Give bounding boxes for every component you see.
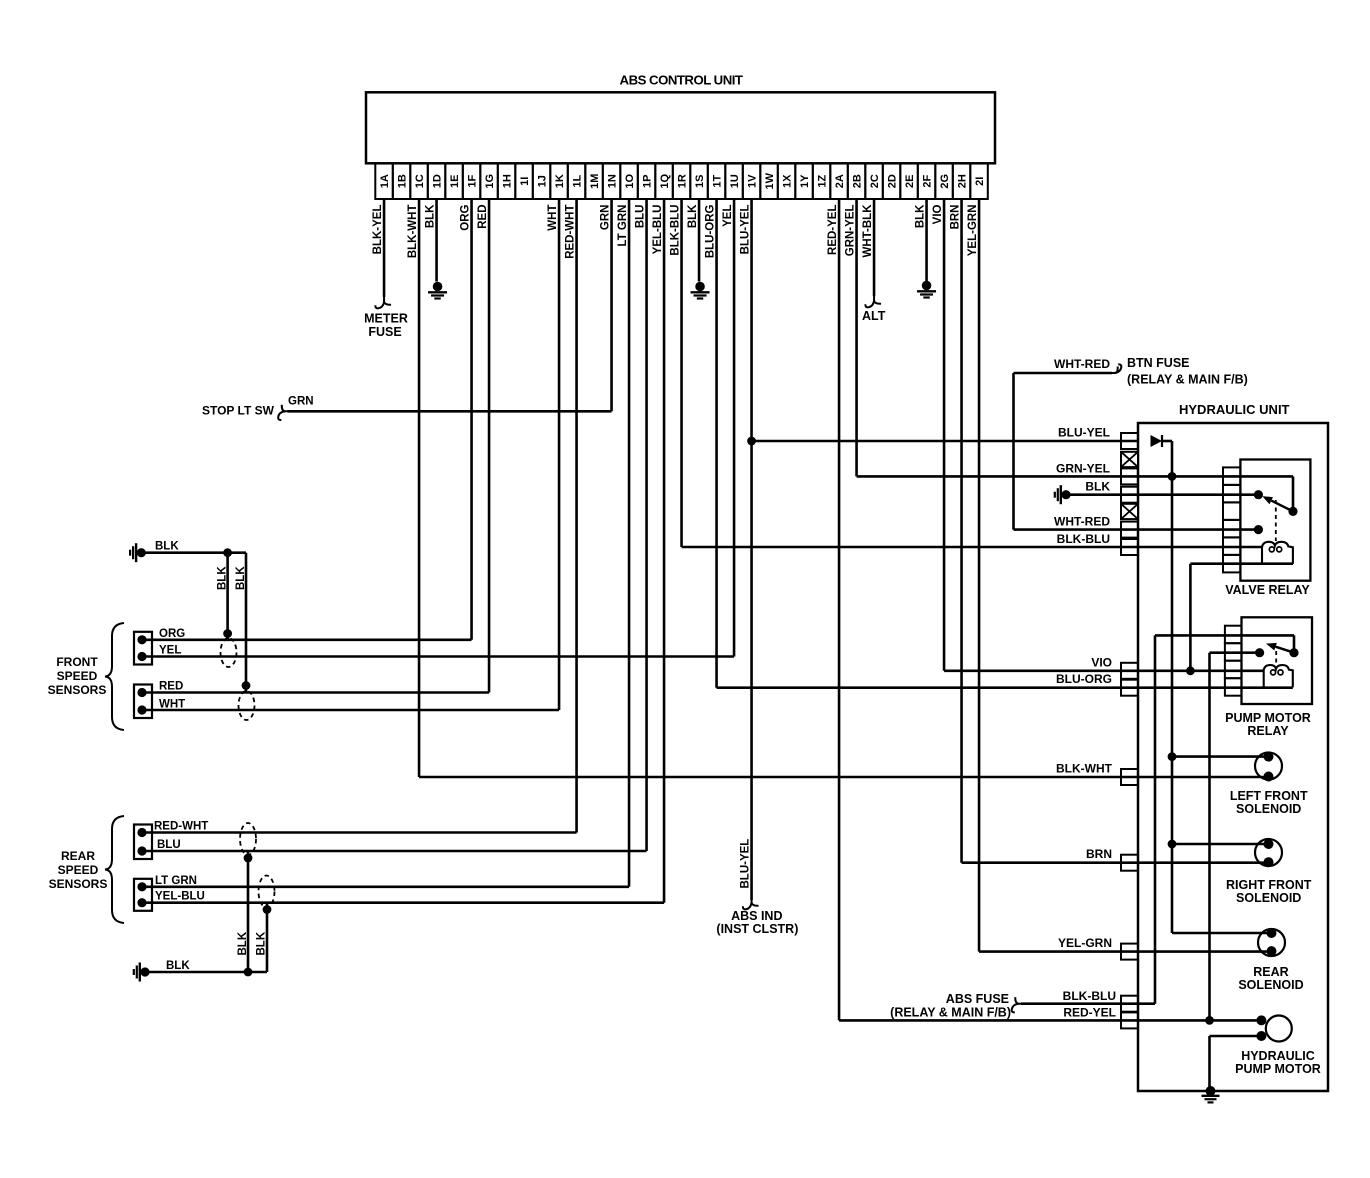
wire pump relay supply: [1155, 634, 1294, 637]
rear sensor connector 1 (RED-WHT/BLU): [134, 825, 152, 860]
svg-text:BLK: BLK: [687, 204, 699, 228]
svg-text:1W: 1W: [764, 172, 776, 189]
wire BRN from pin 2H: [950, 199, 962, 863]
svg-text:LT GRN: LT GRN: [155, 875, 197, 887]
hydraulic unit box: [1138, 423, 1328, 1091]
svg-text:WHT-BLK: WHT-BLK: [862, 204, 874, 258]
svg-text:SOLENOID: SOLENOID: [1236, 802, 1301, 816]
hydraulic pump motor: [1266, 1016, 1292, 1042]
wire BLK from pin 1D: [425, 199, 437, 282]
wire BLK drop from BLU connector: [247, 851, 250, 972]
wire VIO pin 2G to pump relay coil: [944, 669, 1264, 672]
svg-text:1A: 1A: [379, 174, 391, 188]
svg-text:LT GRN: LT GRN: [617, 205, 629, 247]
abs ind hook: [752, 897, 759, 906]
junction front BLK tee: [223, 548, 232, 557]
junction BLK below YEL-BLU wire: [263, 905, 272, 914]
wire RED-YEL pin 2A to pump motor: [839, 1019, 1261, 1022]
wire pump motor return: [1210, 1035, 1262, 1038]
wire GRN-YEL from pin 2B: [845, 199, 857, 476]
wire ORG from pin 1F: [460, 199, 472, 640]
svg-text:RED: RED: [477, 205, 489, 229]
wire RED from pin 1G: [477, 199, 489, 693]
wire BLK drop to ORG connector: [226, 553, 229, 640]
svg-text:BLK-WHT: BLK-WHT: [407, 205, 419, 259]
ABS control unit box: [366, 92, 995, 163]
wire BLK rear ground: [145, 971, 267, 974]
svg-text:2C: 2C: [869, 174, 881, 188]
svg-text:BLU-ORG: BLU-ORG: [705, 204, 717, 258]
wire BLK drop from YEL-BLU connector: [266, 903, 269, 972]
svg-text:LEFT FRONT: LEFT FRONT: [1230, 789, 1308, 803]
rear sensor connector 2 (LT GRN/YEL-BLU): [134, 879, 152, 911]
wire WHT from pin 1K: [547, 199, 559, 710]
valve relay coil: [1262, 542, 1293, 564]
svg-text:BLK: BLK: [155, 541, 179, 553]
svg-text:FUSE: FUSE: [368, 325, 401, 339]
svg-text:HYDRAULIC: HYDRAULIC: [1241, 1049, 1315, 1063]
front sensor connector 1 (ORG/YEL): [134, 632, 152, 665]
svg-text:BLK: BLK: [166, 960, 190, 972]
svg-text:WHT-RED: WHT-RED: [1054, 515, 1110, 529]
svg-text:BLK: BLK: [237, 931, 249, 955]
wire YEL-GRN from pin 2I: [967, 199, 979, 952]
wire BLK-BLU from pin 1R: [670, 199, 682, 547]
svg-text:(RELAY & MAIN F/B): (RELAY & MAIN F/B): [1127, 373, 1248, 387]
wire BLU from pin 1P: [635, 199, 647, 851]
svg-text:YEL-GRN: YEL-GRN: [967, 205, 979, 257]
svg-text:2G: 2G: [939, 174, 951, 189]
wire bus BLK-BLU fused feed: [1154, 635, 1157, 1003]
rear sensors brace: [105, 816, 124, 923]
svg-text:VIO: VIO: [1091, 655, 1112, 669]
svg-text:BLK-BLU: BLK-BLU: [1057, 532, 1110, 546]
wire VIO from pin 2G: [932, 199, 944, 671]
svg-text:RIGHT FRONT: RIGHT FRONT: [1226, 878, 1312, 892]
svg-text:BLK-BLU: BLK-BLU: [1063, 989, 1116, 1003]
wire valve coil return to VIO: [1189, 564, 1192, 671]
wire BLU-YEL from pin 1V: [740, 199, 752, 900]
svg-text:SOLENOID: SOLENOID: [1238, 978, 1303, 992]
junction BLU-YEL at pin 1V: [747, 437, 756, 446]
meter fuse symbol: [384, 296, 391, 305]
svg-text:REAR: REAR: [61, 849, 95, 863]
hydraulic unit ground: [1206, 1086, 1216, 1096]
svg-text:1I: 1I: [519, 177, 531, 186]
svg-text:WHT: WHT: [547, 205, 559, 231]
wire RED-WHT from pin 1L: [565, 199, 577, 833]
wire YEL-BLU from pin 1Q: [652, 199, 664, 903]
svg-text:ABS CONTROL UNIT: ABS CONTROL UNIT: [620, 73, 743, 88]
svg-text:1Y: 1Y: [799, 174, 811, 188]
svg-text:ORG: ORG: [460, 204, 472, 230]
valve relay aux contact dot: [1254, 525, 1263, 534]
junction GRN-YEL diode bus: [1168, 472, 1177, 481]
crossed terminal box 1: [1121, 452, 1138, 467]
svg-text:1J: 1J: [537, 175, 549, 187]
wire BLK-BLU abs fuse to pump relay: [1021, 1002, 1155, 1005]
pump relay coil: [1264, 665, 1293, 687]
abs fuse hook: [1015, 997, 1024, 1004]
junction right front feed: [1168, 840, 1177, 849]
svg-text:1Z: 1Z: [817, 175, 829, 188]
svg-text:1C: 1C: [414, 174, 426, 188]
svg-text:BLU-YEL: BLU-YEL: [1058, 426, 1110, 440]
svg-text:YEL: YEL: [722, 205, 734, 227]
svg-text:FRONT: FRONT: [56, 655, 98, 669]
wire BLU-YEL pin 1V to hydraulic: [752, 440, 1138, 443]
stop lt sw hook: [282, 405, 291, 412]
svg-text:1F: 1F: [467, 175, 479, 188]
junction left front feed: [1168, 752, 1177, 761]
svg-text:BLK: BLK: [1085, 480, 1110, 494]
svg-text:2H: 2H: [957, 174, 969, 188]
svg-text:2D: 2D: [887, 174, 899, 188]
wire BLU-ORG pin 1T to pump relay coil: [717, 686, 1293, 689]
hydraulic BLK ground: [1061, 490, 1070, 499]
svg-text:1M: 1M: [589, 174, 601, 189]
junction rear BLK tee: [244, 968, 253, 977]
svg-text:1O: 1O: [624, 173, 636, 188]
svg-text:BLK: BLK: [235, 566, 247, 590]
junction BLK at ORG connector: [223, 629, 232, 638]
alternator fuse hook at pin 2C: [874, 295, 881, 304]
svg-text:BLU: BLU: [157, 839, 181, 851]
wire BLK-WHT pin 1C to left front solenoid: [419, 776, 1268, 779]
wire BLK-YEL from pin 1A: [372, 199, 384, 297]
junction BLK at RED connector: [242, 681, 251, 690]
wire BLU sensor to pin 1P: [142, 850, 647, 853]
svg-text:METER: METER: [364, 312, 408, 326]
diode on BLU-YEL: [1151, 435, 1163, 447]
svg-text:VALVE RELAY: VALVE RELAY: [1225, 583, 1310, 597]
svg-text:1H: 1H: [502, 174, 514, 188]
svg-text:1U: 1U: [729, 174, 741, 188]
svg-text:1X: 1X: [782, 174, 794, 188]
rear shield ground: [140, 967, 149, 976]
wire valve relay supply to contact: [1240, 475, 1293, 478]
svg-text:WHT-RED: WHT-RED: [1054, 357, 1110, 371]
svg-text:HYDRAULIC UNIT: HYDRAULIC UNIT: [1179, 402, 1290, 417]
btn fuse hook: [1109, 367, 1118, 374]
ground at pin 2F: [922, 281, 932, 291]
svg-text:(INST CLSTR): (INST CLSTR): [716, 922, 798, 936]
front connector oval 1: [221, 638, 237, 667]
wire pump relay output down: [1208, 653, 1211, 1021]
wire ORG sensor to pin 1F: [142, 638, 472, 641]
wire pump relay output: [1210, 651, 1260, 654]
valve relay switch contact dot: [1288, 507, 1297, 516]
junction BLK below BLU wire: [244, 854, 253, 863]
svg-text:YEL-BLU: YEL-BLU: [652, 205, 664, 255]
svg-text:YEL: YEL: [159, 645, 181, 657]
wire left front solenoid feed: [1172, 755, 1269, 758]
hydraulic terminal boxes: [1121, 433, 1138, 449]
svg-text:2B: 2B: [852, 174, 864, 188]
svg-text:YEL-GRN: YEL-GRN: [1058, 936, 1112, 950]
pump relay contact dot left: [1255, 648, 1264, 657]
right front solenoid: [1255, 839, 1282, 866]
wire WHT-RED btn fuse: [1012, 373, 1015, 530]
front sensor connector 2 (RED/WHT): [134, 685, 152, 719]
svg-text:2E: 2E: [904, 175, 916, 188]
svg-text:SENSORS: SENSORS: [49, 877, 108, 891]
svg-text:SENSORS: SENSORS: [48, 683, 107, 697]
svg-text:2A: 2A: [834, 174, 846, 188]
rear connector oval 2: [259, 876, 275, 908]
pump relay switch arm: [1276, 647, 1295, 653]
svg-text:RED-YEL: RED-YEL: [1063, 1005, 1116, 1019]
wire WHT sensor to pin 1K: [142, 709, 559, 712]
wire right front solenoid feed: [1172, 843, 1269, 846]
svg-text:1B: 1B: [397, 174, 409, 188]
svg-text:1G: 1G: [484, 174, 496, 189]
svg-text:YEL-BLU: YEL-BLU: [155, 891, 205, 903]
svg-text:BLK: BLK: [915, 204, 927, 228]
pump relay contact dot right: [1289, 648, 1298, 657]
svg-text:BLK: BLK: [256, 931, 268, 955]
svg-text:PUMP MOTOR: PUMP MOTOR: [1235, 1062, 1321, 1076]
svg-text:SOLENOID: SOLENOID: [1236, 891, 1301, 905]
svg-text:BTN FUSE: BTN FUSE: [1127, 356, 1190, 370]
svg-text:BLU-YEL: BLU-YEL: [740, 205, 752, 255]
wire RED-WHT sensor to pin 1L: [142, 831, 577, 834]
svg-text:GRN-YEL: GRN-YEL: [845, 205, 857, 257]
wire BLK front ground: [141, 551, 246, 554]
wire GRN from pin 1N: [600, 199, 612, 411]
svg-text:(RELAY & MAIN F/B): (RELAY & MAIN F/B): [890, 1006, 1011, 1020]
svg-text:2I: 2I: [974, 177, 986, 186]
svg-text:BLK-BLU: BLK-BLU: [670, 205, 682, 256]
svg-text:ABS IND: ABS IND: [731, 909, 782, 923]
svg-text:RED: RED: [159, 681, 183, 693]
svg-text:BLU-ORG: BLU-ORG: [1056, 672, 1112, 686]
svg-text:BLK: BLK: [425, 204, 437, 228]
svg-text:1K: 1K: [554, 174, 566, 188]
front sensors brace: [105, 623, 124, 730]
svg-text:BLU: BLU: [635, 205, 647, 229]
valve relay terminal strip: [1223, 467, 1240, 485]
svg-text:GRN-YEL: GRN-YEL: [1056, 461, 1110, 475]
wire rear solenoid feed: [1172, 932, 1272, 935]
junction RED-YEL pump output: [1205, 1016, 1214, 1025]
wire YEL sensor to pin 1U: [142, 655, 734, 658]
svg-text:RELAY: RELAY: [1247, 724, 1289, 738]
wire YEL-BLU sensor to pin 1Q: [142, 901, 664, 904]
wire RED-YEL from pin 2A: [827, 199, 839, 1020]
svg-text:RED-WHT: RED-WHT: [154, 821, 208, 833]
wire bus diode to rear solenoid: [1171, 441, 1174, 933]
svg-text:BLU-YEL: BLU-YEL: [740, 839, 752, 889]
svg-text:1S: 1S: [694, 175, 706, 188]
svg-text:PUMP MOTOR: PUMP MOTOR: [1225, 711, 1311, 725]
svg-text:GRN: GRN: [600, 205, 612, 231]
svg-text:BRN: BRN: [950, 205, 962, 230]
svg-text:BRN: BRN: [1086, 847, 1112, 861]
svg-text:GRN: GRN: [288, 396, 314, 408]
wire YEL from pin 1U: [722, 199, 734, 657]
svg-text:BLK-YEL: BLK-YEL: [372, 205, 384, 255]
pump relay actuation dashed link: [1275, 651, 1277, 665]
valve relay switch common dot: [1254, 490, 1263, 499]
wire BLU-ORG from pin 1T: [705, 199, 717, 688]
svg-text:RED-YEL: RED-YEL: [827, 205, 839, 255]
ground at pin 1D: [433, 282, 443, 292]
wire RED sensor to pin 1G: [142, 691, 489, 694]
connector pin row 1A-2I: [375, 164, 393, 200]
svg-text:1T: 1T: [712, 175, 724, 188]
svg-text:1E: 1E: [449, 175, 461, 188]
ground at pin 1S: [695, 282, 705, 292]
wire LT GRN sensor to pin 1O: [142, 885, 629, 888]
wire LT GRN from pin 1O: [617, 199, 629, 887]
rear solenoid: [1258, 929, 1285, 956]
wire valve coil return: [1190, 562, 1293, 565]
svg-text:SPEED: SPEED: [57, 669, 98, 683]
svg-text:BLK: BLK: [217, 566, 229, 590]
crossed terminal box 2: [1121, 504, 1138, 519]
svg-text:1D: 1D: [432, 174, 444, 188]
pump relay terminal strip: [1225, 626, 1242, 644]
front connector oval 2: [239, 691, 255, 720]
svg-text:1R: 1R: [677, 174, 689, 188]
wire GRN stop lt sw to pin 1N: [288, 410, 612, 413]
rear connector oval 1: [240, 823, 256, 855]
svg-text:1L: 1L: [572, 175, 584, 188]
svg-text:BLK-WHT: BLK-WHT: [1056, 762, 1113, 776]
svg-text:ABS FUSE: ABS FUSE: [946, 992, 1009, 1006]
svg-text:1N: 1N: [607, 174, 619, 188]
front shield ground: [137, 548, 146, 557]
svg-text:1V: 1V: [747, 174, 759, 188]
valve relay box: [1240, 460, 1310, 581]
svg-text:VIO: VIO: [932, 204, 944, 224]
svg-text:ORG: ORG: [159, 628, 185, 640]
svg-text:RED-WHT: RED-WHT: [565, 205, 577, 259]
valve relay actuation dashed link: [1275, 500, 1277, 541]
svg-text:ALT: ALT: [862, 309, 886, 323]
svg-text:1Q: 1Q: [659, 173, 671, 188]
wire BLK ground to valve relay: [1066, 493, 1258, 496]
wire BLK from pin 1S: [687, 199, 699, 282]
svg-text:2F: 2F: [922, 175, 934, 188]
valve relay switch arm: [1271, 501, 1293, 512]
wire YEL-GRN pin 2I to rear solenoid: [979, 950, 1271, 953]
wire GRN-YEL pin 2B to valve relay: [857, 475, 1241, 478]
wire BLK-BLU pin 1R to valve relay coil: [682, 546, 1262, 549]
wire WHT-RED to valve relay: [1014, 528, 1259, 531]
wire BLK-WHT from pin 1C: [407, 199, 419, 777]
junction VIO valve coil: [1186, 666, 1195, 675]
svg-text:SPEED: SPEED: [58, 863, 99, 877]
wire WHT-BLK from pin 2C: [862, 199, 874, 296]
svg-text:1P: 1P: [642, 175, 654, 188]
wire BLK from pin 2F: [915, 199, 927, 281]
svg-text:REAR: REAR: [1253, 965, 1288, 979]
left front solenoid: [1255, 753, 1282, 780]
pump motor relay box: [1242, 617, 1313, 704]
svg-text:STOP LT SW: STOP LT SW: [202, 404, 275, 418]
wire BRN pin 2H to right front solenoid: [962, 861, 1269, 864]
